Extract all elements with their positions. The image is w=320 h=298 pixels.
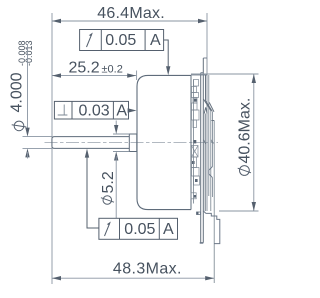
dimension 48.3Max bottom: [52, 261, 214, 281]
svg-text:0.03: 0.03: [79, 103, 110, 120]
motor can outline: [137, 75, 191, 209]
svg-text:0.05: 0.05: [124, 221, 155, 238]
svg-text:±0.2: ±0.2: [102, 63, 123, 75]
leader from top FCF to can top: [164, 40, 171, 75]
svg-text:A: A: [163, 221, 174, 238]
bracket bend diagonals: [203, 75, 214, 211]
feature control frame runout 0.05 A (bottom): [99, 218, 178, 239]
dimension Ø5.2 (rotated): [100, 121, 130, 219]
bracket top tab: [191, 58, 207, 75]
svg-text:A: A: [116, 103, 127, 120]
svg-text:5.2: 5.2: [100, 171, 117, 193]
extension line left (shaft tip datum): [51, 13, 53, 284]
svg-text:48.3Max.: 48.3Max.: [113, 261, 182, 278]
svg-text:0.05: 0.05: [105, 32, 136, 49]
bearing boss Ø5.2: [129, 134, 137, 152]
leader from bottom FCF to shaft underside: [85, 149, 99, 228]
stator stack rectangles on can right face: [191, 80, 200, 199]
dimension Ø4.000 -0.008/-0.013 (rotated, left): [9, 40, 53, 158]
feature control frame perpendicularity 0.03 A: [54, 101, 128, 119]
dimension Ø40.6Max (right, rotated): [191, 74, 259, 211]
bracket foot / lower tab: [197, 211, 220, 244]
bracket mid jog: [209, 167, 213, 178]
svg-text:A: A: [150, 32, 161, 49]
bracket plate verticals: [193, 58, 214, 283]
svg-text:40.6Max.: 40.6Max.: [236, 98, 253, 164]
leader from perpendicularity FCF to can face: [128, 108, 137, 112]
extension line right for 46.4: [206, 13, 208, 58]
svg-text:25.2: 25.2: [69, 59, 100, 76]
dimension 46.4Max top: [52, 5, 207, 23]
dimension 25.2 ±0.2: [52, 59, 137, 80]
svg-text:-0.013: -0.013: [24, 40, 34, 66]
dark notches in stack: [192, 99, 198, 198]
svg-text:4.000: 4.000: [9, 72, 26, 112]
feature control frame runout 0.05 A (top): [80, 30, 164, 51]
center line (shaft axis): [45, 142, 219, 144]
svg-text:46.4Max.: 46.4Max.: [97, 5, 165, 22]
shaft Ø4 outline: [52, 137, 129, 149]
